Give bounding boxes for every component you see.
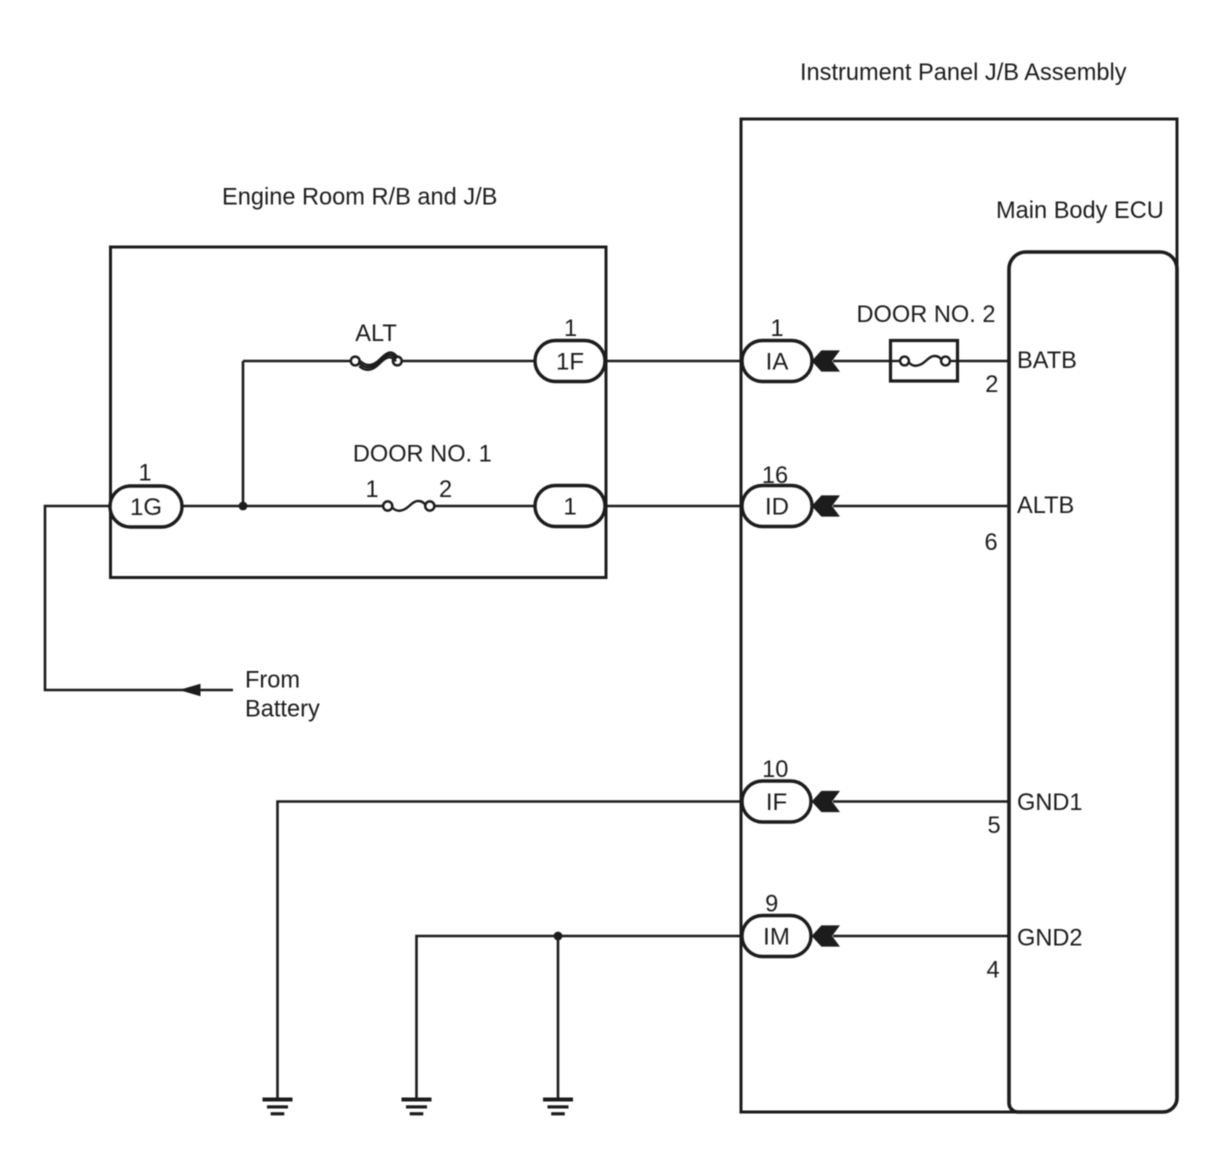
Instrument Panel J/B box xyxy=(741,119,1177,1112)
svg-text:Engine Room R/B and J/B: Engine Room R/B and J/B xyxy=(222,185,497,211)
svg-text:1: 1 xyxy=(564,316,577,342)
fuse DOOR NO. 2 xyxy=(891,341,958,382)
svg-text:4: 4 xyxy=(986,958,999,984)
wire: IF arrow to ECU GND1 xyxy=(833,800,1010,803)
wire: from battery vertical xyxy=(45,506,233,690)
svg-text:1F: 1F xyxy=(556,349,584,376)
svg-text:1: 1 xyxy=(365,477,378,503)
arrow: from battery xyxy=(179,684,201,696)
svg-text:1: 1 xyxy=(138,461,151,487)
svg-text:1G: 1G xyxy=(130,494,162,521)
wire: IF to ground 1 xyxy=(278,802,743,1100)
svg-text:GND2: GND2 xyxy=(1017,926,1083,952)
node: junction on 1G wire xyxy=(239,502,248,511)
svg-text:IA: IA xyxy=(766,349,789,376)
svg-text:2: 2 xyxy=(439,477,452,503)
wire: ALT row left segment xyxy=(243,360,351,363)
wire: 1G row fuse to 1 pill xyxy=(435,505,537,508)
ground G1 xyxy=(263,1098,293,1116)
connector 1F xyxy=(535,341,605,382)
wire: vertical riser from junction to ALT row xyxy=(242,361,245,506)
svg-text:ID: ID xyxy=(765,494,789,521)
svg-text:16: 16 xyxy=(762,463,788,489)
wire: IA arrow to fuse box xyxy=(833,360,892,363)
wire: junction to ground 3 xyxy=(557,936,560,1099)
svg-text:DOOR NO. 2: DOOR NO. 2 xyxy=(857,302,996,328)
ECU U1 (Main Body ECU) xyxy=(1009,252,1177,1112)
svg-text:1: 1 xyxy=(770,316,783,342)
arrow: shielded marker at IM xyxy=(812,925,840,946)
svg-text:6: 6 xyxy=(984,530,997,556)
connector IM xyxy=(742,916,811,957)
fuse DOOR NO. 1 xyxy=(383,501,434,511)
connector IA xyxy=(742,341,812,382)
svg-text:IF: IF xyxy=(766,789,787,816)
ground G2 xyxy=(402,1098,432,1116)
wire: 1F to IA xyxy=(605,360,742,363)
svg-text:5: 5 xyxy=(987,813,1000,839)
arrow: shielded marker at IF xyxy=(812,791,840,812)
connector 1 xyxy=(535,486,605,527)
wire: ALT row right segment to 1F xyxy=(402,360,537,363)
node: junction on IM wire xyxy=(554,932,563,941)
svg-text:ALTB: ALTB xyxy=(1017,493,1074,519)
wire: IM arrow to ECU GND2 xyxy=(833,935,1010,938)
fusible link ALT xyxy=(351,352,402,369)
connector ID xyxy=(742,486,812,527)
Engine Room R/B and J/B box xyxy=(111,247,607,578)
wire: 1 to ID xyxy=(605,505,742,508)
svg-text:Main Body ECU: Main Body ECU xyxy=(996,198,1164,224)
svg-text:BATB: BATB xyxy=(1017,348,1077,374)
connector 1G xyxy=(110,486,182,527)
svg-text:DOOR NO. 1: DOOR NO. 1 xyxy=(353,442,492,468)
arrow: shielded marker at IA xyxy=(812,350,840,371)
arrow: shielded marker at ID xyxy=(812,495,840,516)
wire: ID arrow to ECU ALTB xyxy=(833,505,1010,508)
wire: fuse box to ECU BATB xyxy=(956,360,1010,363)
svg-text:9: 9 xyxy=(765,892,778,918)
svg-text:10: 10 xyxy=(762,757,788,783)
svg-text:IM: IM xyxy=(763,924,790,951)
connector IF xyxy=(742,781,811,822)
wire: IM to ground 2 xyxy=(417,936,743,1099)
svg-text:ALT: ALT xyxy=(355,321,397,347)
ground G3 xyxy=(543,1098,573,1116)
svg-text:From: From xyxy=(245,668,300,694)
svg-text:2: 2 xyxy=(985,372,998,398)
svg-text:1: 1 xyxy=(563,494,576,521)
svg-text:Battery: Battery xyxy=(245,697,320,723)
wire: 1G row from box edge to fuse xyxy=(110,505,383,508)
svg-text:GND1: GND1 xyxy=(1017,790,1083,816)
svg-text:Instrument Panel J/B Assembly: Instrument Panel J/B Assembly xyxy=(800,60,1127,86)
